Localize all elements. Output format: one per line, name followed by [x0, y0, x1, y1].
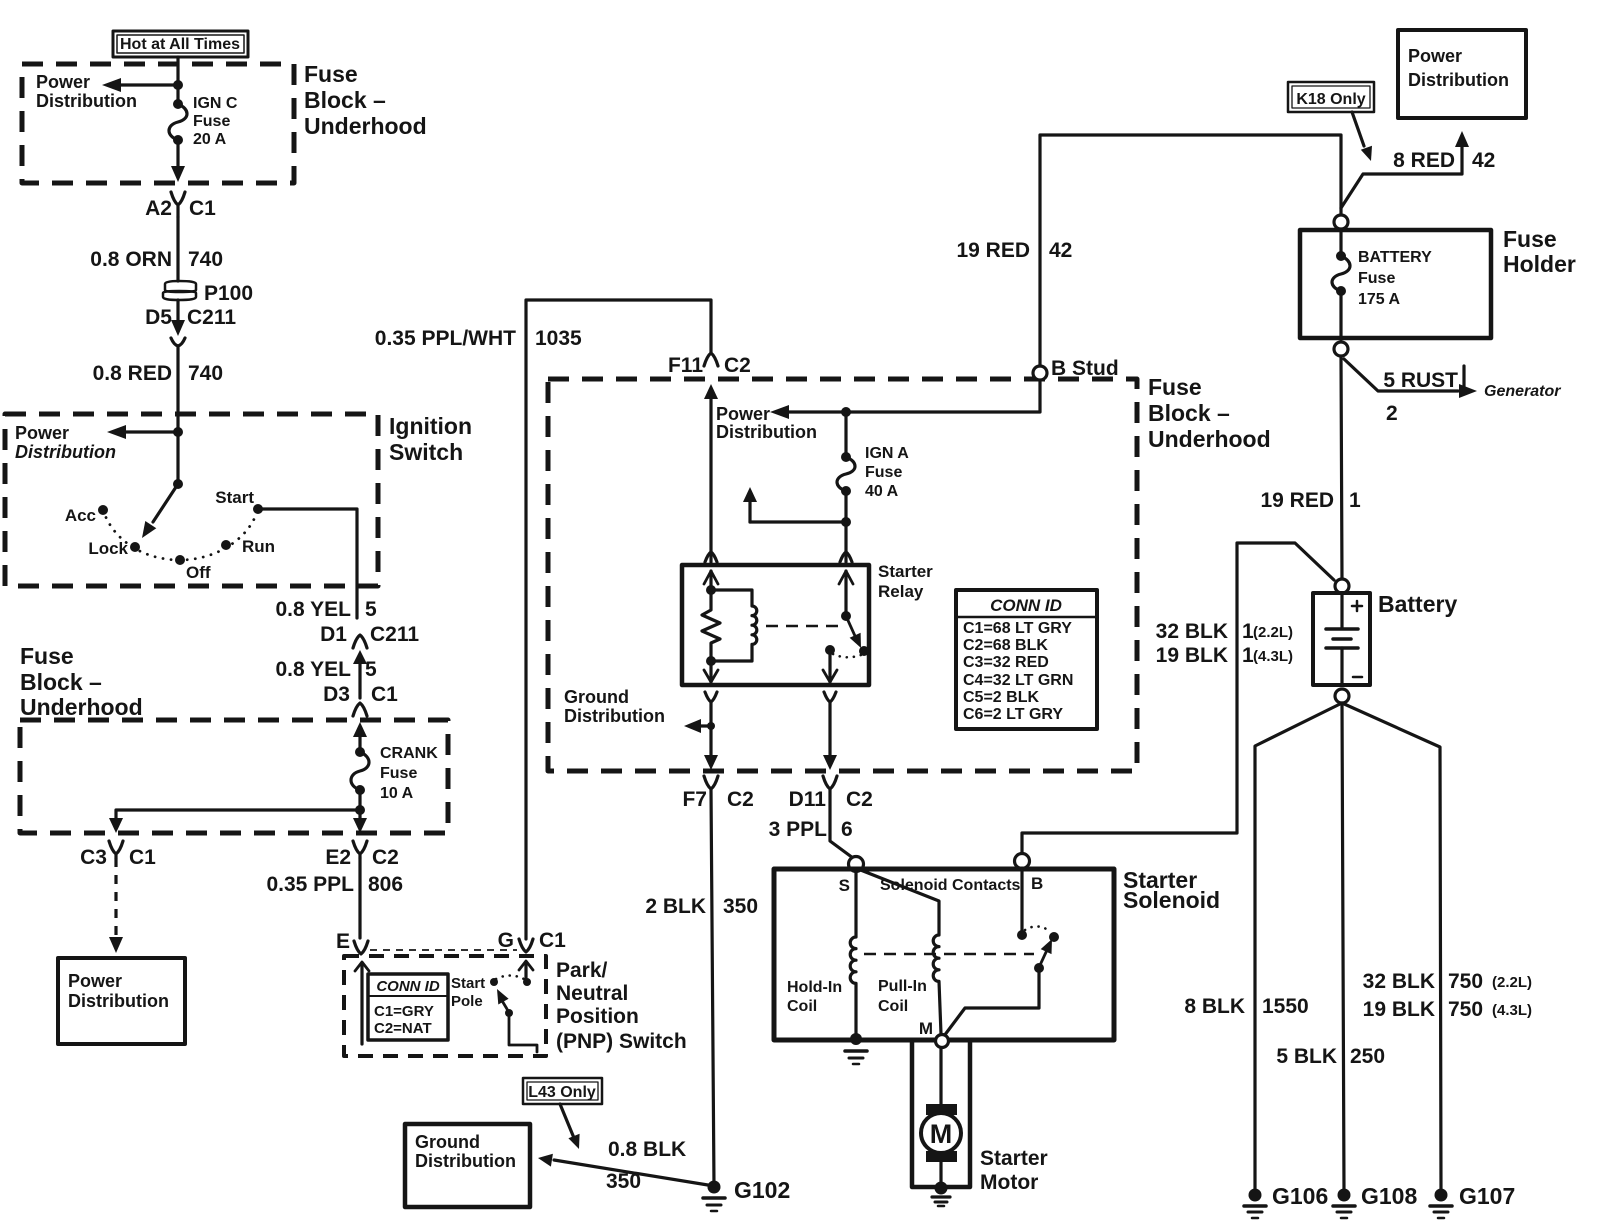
node relay coil top [706, 585, 716, 595]
grommet P100 [163, 281, 196, 300]
svg-text:Battery: Battery [1378, 591, 1457, 617]
label Power Distribution (in fuse block 1) [36, 72, 137, 111]
svg-text:F7: F7 [682, 788, 707, 811]
svg-text:C2=68 BLK: C2=68 BLK [963, 637, 1048, 654]
wire with up arrow entering crank fuse [353, 722, 367, 752]
fuse block underhood dashed box (left middle) [20, 720, 448, 833]
svg-text:E: E [336, 930, 350, 953]
svg-text:Underhood: Underhood [20, 694, 143, 720]
node junction below crank fuse [355, 805, 365, 815]
svg-text:19 BLK: 19 BLK [1156, 644, 1228, 667]
svg-text:G102: G102 [734, 1177, 790, 1203]
svg-text:Underhood: Underhood [304, 113, 427, 139]
svg-text:Solenoid: Solenoid [1123, 887, 1220, 913]
svg-text:E2: E2 [325, 846, 351, 869]
label Power Distribution (ignition switch) [15, 423, 116, 462]
svg-text:Pole: Pole [451, 993, 483, 1010]
relay moving contact dot [825, 645, 835, 655]
svg-text:Park/: Park/ [556, 959, 608, 982]
svg-text:Holder: Holder [1503, 251, 1576, 277]
svg-text:Lock: Lock [88, 539, 128, 558]
svg-text:250: 250 [1350, 1045, 1385, 1068]
label 2 BLK 350 [645, 895, 758, 918]
svg-text:0.8 RED: 0.8 RED [93, 362, 172, 385]
node relay coil bottom [706, 656, 716, 666]
fuse CRANK 10 A [351, 747, 369, 795]
svg-text:350: 350 [606, 1170, 641, 1193]
hold-in coil wire and inductor [850, 871, 856, 1037]
svg-text:(PNP) Switch: (PNP) Switch [556, 1030, 687, 1053]
svg-text:Fuse: Fuse [865, 464, 902, 481]
PNP start pole contact dots [490, 978, 531, 986]
svg-text:Block –: Block – [20, 669, 102, 695]
svg-text:Coil: Coil [787, 998, 817, 1015]
hold-in coil ground [845, 1033, 867, 1064]
svg-text:C2: C2 [846, 788, 873, 811]
relay coil inductor [711, 590, 757, 661]
svg-text:Block –: Block – [1148, 400, 1230, 426]
svg-text:6: 6 [841, 818, 853, 841]
svg-text:175 A: 175 A [1358, 291, 1401, 308]
wire left branch to C3 [109, 810, 360, 833]
ground G108 [1333, 1189, 1355, 1219]
label Pull-In Coil [878, 978, 927, 1015]
svg-text:Relay: Relay [878, 582, 924, 601]
svg-text:G: G [498, 929, 514, 952]
svg-text:C1: C1 [189, 197, 216, 220]
svg-text:B Stud: B Stud [1051, 357, 1119, 380]
svg-text:G108: G108 [1361, 1183, 1417, 1209]
relay resistor [702, 590, 720, 661]
wire D11 to S terminal [830, 789, 853, 858]
svg-text:C3: C3 [80, 846, 107, 869]
label Starter Solenoid [1123, 867, 1220, 913]
label 19 RED 1 [1260, 489, 1361, 512]
ground G102 [703, 1181, 725, 1212]
relay mechanical dashed link [766, 625, 838, 628]
arrow from K18 Only [1352, 112, 1372, 161]
wire 0.8 RED 740 [176, 346, 179, 432]
svg-text:(2.2L): (2.2L) [1253, 624, 1293, 641]
svg-text:Fuse: Fuse [1503, 226, 1557, 252]
connector A2 C1 [171, 192, 185, 217]
wire fuse to lower junction [844, 491, 847, 522]
fuse holder bottom terminal circle [1334, 342, 1348, 356]
svg-text:Run: Run [242, 537, 275, 556]
connector D11 C2 [823, 776, 837, 789]
label 32 BLK 750 (2.2L) [1363, 970, 1532, 993]
svg-text:C2=NAT: C2=NAT [374, 1020, 432, 1037]
solenoid switch arm with arrow [1034, 939, 1052, 973]
svg-text:42: 42 [1472, 149, 1495, 172]
PNP dotted arc [496, 976, 524, 980]
svg-text:C2: C2 [724, 354, 751, 377]
svg-text:Ground: Ground [564, 687, 629, 707]
label 5 BLK 250 [1276, 1045, 1385, 1068]
arrow up at E terminal [355, 962, 369, 1044]
svg-text:S: S [839, 876, 850, 895]
svg-text:M: M [919, 1019, 933, 1038]
svg-text:3 PPL: 3 PPL [769, 818, 828, 841]
wire with up arrow entering fuse block from F11 [704, 384, 718, 562]
ground distribution box (bottom) [405, 1124, 530, 1207]
S terminal circle [849, 857, 864, 872]
svg-text:0.8 ORN: 0.8 ORN [90, 248, 172, 271]
wire 8 RED 42 branch with up arrow [1341, 131, 1469, 208]
wire M terminal to motor [939, 1048, 942, 1104]
relay fixed contact dot [841, 611, 851, 621]
label CRANK Fuse 10 A [380, 745, 438, 802]
svg-text:Fuse: Fuse [380, 765, 417, 782]
svg-text:IGN C: IGN C [193, 95, 238, 112]
svg-text:42: 42 [1049, 239, 1072, 262]
svg-text:Starter: Starter [878, 562, 933, 581]
M terminal circle [936, 1035, 949, 1048]
wire relay to F7 with down arrow [704, 702, 718, 770]
svg-text:Fuse: Fuse [1358, 270, 1395, 287]
svg-text:Fuse: Fuse [1148, 374, 1202, 400]
svg-text:0.35 PPL/WHT: 0.35 PPL/WHT [375, 327, 516, 350]
svg-text:Neutral: Neutral [556, 982, 628, 1005]
wire battery negative to G107 [1342, 703, 1441, 1190]
svg-text:Power: Power [716, 404, 770, 424]
svg-text:19 BLK: 19 BLK [1363, 998, 1435, 1021]
chevron below relay right [824, 692, 836, 702]
arrow to power distribution [102, 78, 178, 92]
label BATTERY Fuse 175 A [1358, 249, 1432, 308]
label Fuse Block - Underhood (middle right) [1148, 374, 1271, 452]
fuse IGN C 20 A [169, 99, 187, 145]
svg-text:750: 750 [1448, 970, 1483, 993]
svg-text:C1=GRY: C1=GRY [374, 1003, 434, 1020]
svg-text:Block –: Block – [304, 87, 386, 113]
node junction above IGN A fuse [841, 407, 851, 417]
svg-text:750: 750 [1448, 998, 1483, 1021]
starter solenoid box [774, 869, 1114, 1040]
label 0.35 PPL/WHT 1035 [375, 327, 582, 350]
svg-text:Fuse: Fuse [193, 113, 230, 130]
svg-text:D1: D1 [320, 623, 347, 646]
relay coil feed up arrow [704, 571, 718, 590]
wire from B terminal to battery positive [1022, 543, 1334, 853]
fuse block underhood dashed box (middle) [548, 379, 1137, 771]
label 19 RED 42 [956, 239, 1072, 262]
svg-text:CONN ID: CONN ID [990, 596, 1062, 615]
svg-text:5: 5 [365, 598, 377, 621]
label Fuse Block - Underhood (top left) [304, 61, 427, 139]
svg-text:(4.3L): (4.3L) [1253, 648, 1293, 665]
svg-text:Motor: Motor [980, 1171, 1038, 1194]
svg-text:B: B [1031, 874, 1043, 893]
wire battery negative to G106 [1255, 703, 1342, 1190]
connector D5 C211 with arrow [171, 300, 185, 346]
svg-text:Fuse: Fuse [20, 643, 74, 669]
svg-text:1035: 1035 [535, 327, 582, 350]
svg-text:C6=2 LT GRY: C6=2 LT GRY [963, 706, 1063, 723]
svg-text:C211: C211 [187, 306, 236, 329]
svg-text:Start: Start [451, 975, 485, 992]
label Ground Distribution (middle) [564, 687, 665, 726]
svg-text:C2: C2 [727, 788, 754, 811]
label Power Distribution (middle fuse block) [716, 404, 817, 442]
svg-text:Switch: Switch [389, 439, 463, 465]
svg-text:2 BLK: 2 BLK [645, 895, 706, 918]
svg-text:5: 5 [365, 658, 377, 681]
power distribution box (bottom left) [58, 958, 185, 1044]
svg-text:C4=32 LT GRN: C4=32 LT GRN [963, 672, 1073, 689]
dashed wire to power distribution [109, 858, 123, 953]
node junction ignition feed [173, 427, 183, 437]
fuse block underhood dashed box (top left) [22, 64, 294, 183]
svg-text:CONN ID: CONN ID [376, 978, 440, 995]
svg-text:A2: A2 [145, 197, 172, 220]
svg-text:C5=2 BLK: C5=2 BLK [963, 689, 1039, 706]
label 0.8 ORN 740 [90, 248, 223, 271]
battery positive terminal circle [1335, 579, 1349, 593]
fuse holder box [1300, 230, 1491, 338]
pull-in coil wire and inductor [858, 869, 941, 1034]
svg-text:G106: G106 [1272, 1183, 1328, 1209]
svg-text:740: 740 [188, 248, 223, 271]
svg-text:(2.2L): (2.2L) [1492, 974, 1532, 991]
svg-text:Ignition: Ignition [389, 413, 472, 439]
label Start Pole [451, 975, 485, 1010]
park neutral position switch dashed box [344, 956, 546, 1056]
solenoid contact dotted arc [1025, 926, 1051, 932]
svg-text:0.8 YEL: 0.8 YEL [276, 598, 352, 621]
wire battery negative to G108 [1342, 703, 1344, 1190]
connector F11 C2 [704, 353, 718, 366]
svg-text:Starter: Starter [980, 1147, 1048, 1170]
svg-text:C1: C1 [129, 846, 156, 869]
svg-text:G107: G107 [1459, 1183, 1515, 1209]
relay contact dotted arc [833, 654, 861, 657]
label 0.35 PPL 806 [266, 873, 403, 896]
label Power Distribution (top right box) [1408, 46, 1509, 90]
svg-text:Generator: Generator [1484, 383, 1561, 400]
motor brush bottom [926, 1151, 957, 1162]
label 0.8 YEL 5 (lower) [276, 658, 378, 681]
label 0.8 YEL 5 (upper) [276, 598, 378, 621]
wire from crank fuse to junction [358, 790, 361, 810]
svg-text:0.35 PPL: 0.35 PPL [266, 873, 354, 896]
relay coil down arrow [704, 661, 718, 682]
battery minus sign [1353, 676, 1362, 679]
svg-text:8 BLK: 8 BLK [1184, 995, 1245, 1018]
wire motor to ground [939, 1162, 942, 1184]
wire B stud up and across to fuse holder [1040, 135, 1341, 366]
battery box [1313, 593, 1370, 685]
svg-text:Distribution: Distribution [15, 442, 116, 462]
svg-text:D11: D11 [789, 788, 827, 811]
ignition rotary dotted arc [103, 509, 258, 560]
svg-text:Fuse: Fuse [304, 61, 358, 87]
svg-text:740: 740 [188, 362, 223, 385]
motor brush top [926, 1104, 957, 1115]
wire down arrow to E2 [353, 810, 367, 833]
ground G106 [1244, 1189, 1266, 1219]
wire B terminal to contact [1020, 869, 1023, 935]
svg-text:D5: D5 [145, 306, 172, 329]
starter motor ground [932, 1182, 950, 1207]
chevron below relay left [705, 692, 717, 702]
wire from Hot at All Times down [176, 57, 179, 104]
connector F7 C2 [704, 776, 718, 789]
svg-text:2: 2 [1386, 402, 1398, 425]
svg-text:20 A: 20 A [193, 131, 227, 148]
wire relay to D11 with down arrow [823, 702, 837, 770]
wire 0.35 PPL 806 [358, 858, 361, 938]
wire 19 RED 1 [1341, 356, 1342, 579]
connector D3 C1 [353, 703, 367, 716]
wire 0.8 BLK 350 with arrow to ground distribution [538, 1154, 714, 1186]
power distribution box (top right) [1398, 30, 1526, 118]
label 3 PPL 6 [769, 818, 853, 841]
svg-text:0.8 YEL: 0.8 YEL [276, 658, 352, 681]
label IGN C Fuse 20 A [193, 95, 238, 148]
solenoid contact dot B [1017, 930, 1027, 940]
chevron above relay left [705, 552, 717, 562]
svg-text:Distribution: Distribution [564, 706, 665, 726]
svg-text:32 BLK: 32 BLK [1156, 620, 1228, 643]
svg-text:IGN A: IGN A [865, 445, 909, 462]
dashed connector line between E and G [370, 949, 517, 951]
label 8 BLK 1550 [1184, 995, 1308, 1018]
battery plus sign [1352, 601, 1362, 611]
svg-text:Hot at All Times: Hot at All Times [120, 36, 240, 53]
label 32 BLK 1 (2.2L) [1156, 620, 1293, 643]
fuse IGN A 40 A [837, 452, 855, 496]
svg-text:350: 350 [723, 895, 758, 918]
label Starter Motor [980, 1147, 1048, 1194]
label Hold-In Coil [787, 979, 842, 1015]
fuse BATTERY 175 A [1332, 229, 1350, 339]
svg-text:1550: 1550 [1262, 995, 1309, 1018]
PNP switch arm with arrow [497, 989, 537, 1052]
label 0.8 RED 740 [93, 362, 223, 385]
node ground distribution tap with arrow [684, 719, 715, 733]
connector G C1 [519, 939, 533, 952]
svg-text:D3: D3 [323, 683, 350, 706]
relay switch arm [846, 616, 869, 656]
wire junction to fuse [844, 412, 847, 457]
svg-text:Pull-In: Pull-In [878, 978, 927, 995]
svg-text:Distribution: Distribution [68, 991, 169, 1011]
starter motor housing [912, 1042, 970, 1187]
motor circle M [921, 1113, 961, 1153]
node junction below IGN A fuse [841, 517, 851, 527]
svg-text:Underhood: Underhood [1148, 426, 1271, 452]
svg-text:Distribution: Distribution [36, 91, 137, 111]
svg-text:40 A: 40 A [865, 483, 899, 500]
svg-text:19 RED: 19 RED [956, 239, 1030, 262]
relay output wire down arrow [823, 650, 837, 682]
node junction at IGN C feed [173, 80, 183, 90]
label 8 RED 42 [1393, 149, 1495, 172]
label Park/Neutral Position (PNP) Switch [556, 959, 687, 1053]
label Fuse Holder [1503, 226, 1576, 277]
label Fuse Block - Underhood (left middle) [20, 643, 143, 720]
svg-text:P100: P100 [204, 282, 253, 305]
svg-text:C3=32 RED: C3=32 RED [963, 654, 1049, 671]
wire with down arrow exiting fuse block 1 [171, 140, 185, 182]
svg-text:32 BLK: 32 BLK [1363, 970, 1435, 993]
arrow up at G terminal [519, 961, 533, 978]
svg-text:Power: Power [15, 423, 69, 443]
wire to wiper [176, 432, 179, 484]
battery negative terminal circle [1335, 689, 1349, 703]
svg-text:1: 1 [1349, 489, 1361, 512]
svg-text:Power: Power [36, 72, 90, 92]
svg-text:C1: C1 [539, 929, 566, 952]
connector E2 C2 [353, 841, 367, 858]
svg-text:(4.3L): (4.3L) [1492, 1002, 1532, 1019]
wire 0.35 PPL/WHT 1035 [526, 300, 711, 939]
wire from Start contact [258, 509, 357, 618]
svg-text:0.8 BLK: 0.8 BLK [608, 1138, 686, 1161]
arrow to power distribution (middle) [770, 405, 789, 419]
wire from B Stud to IGN A junction [789, 380, 1040, 412]
wire 5 RUST 2 branch with arrow to generator [1344, 359, 1477, 398]
battery cell symbol [1326, 593, 1358, 685]
arrow from L43 Only [560, 1104, 580, 1149]
svg-text:19 RED: 19 RED [1260, 489, 1334, 512]
connector E [354, 941, 368, 954]
label 19 BLK 750 (4.3L) [1363, 998, 1532, 1021]
svg-text:L43 Only: L43 Only [528, 1084, 596, 1101]
conn id table (PNP) [368, 974, 448, 1040]
B Stud terminal circle [1033, 366, 1047, 380]
svg-text:8 RED: 8 RED [1393, 149, 1455, 172]
svg-text:Position: Position [556, 1005, 639, 1028]
svg-text:5 BLK: 5 BLK [1276, 1045, 1337, 1068]
svg-text:K18 Only: K18 Only [1296, 91, 1365, 108]
svg-text:Acc: Acc [65, 506, 96, 525]
svg-text:CRANK: CRANK [380, 745, 438, 762]
svg-text:C1: C1 [371, 683, 398, 706]
relay contact feed with up arrow [839, 571, 853, 616]
svg-text:10 A: 10 A [380, 785, 414, 802]
svg-text:Coil: Coil [878, 998, 908, 1015]
svg-text:Distribution: Distribution [716, 422, 817, 442]
label 19 BLK 1 (4.3L) [1156, 644, 1293, 667]
connector D1 C211 [353, 635, 367, 698]
label 0.8 BLK 350 [606, 1138, 686, 1193]
svg-text:C211: C211 [370, 623, 419, 646]
arrow to power distribution (ignition switch) [107, 425, 178, 439]
ignition switch dashed box [5, 414, 378, 586]
label 5 RUST 2 [1383, 369, 1458, 425]
svg-text:Ground: Ground [415, 1132, 480, 1152]
wire switch arm to M terminal [944, 968, 1039, 1036]
svg-text:BATTERY: BATTERY [1358, 249, 1432, 266]
svg-text:Distribution: Distribution [1408, 70, 1509, 90]
branch wire with up arrow [743, 487, 846, 522]
label Power Distribution (bottom left box) [68, 971, 169, 1011]
svg-text:Off: Off [186, 563, 211, 582]
svg-text:Distribution: Distribution [415, 1151, 516, 1171]
solenoid dashed link [864, 953, 1034, 956]
svg-text:5 RUST: 5 RUST [1383, 369, 1458, 392]
conn id table (fuse block) [956, 590, 1097, 729]
svg-text:F11: F11 [668, 354, 703, 377]
svg-text:Power: Power [68, 971, 122, 991]
B terminal circle [1015, 854, 1030, 869]
starter relay box [682, 565, 869, 685]
svg-text:Power: Power [1408, 46, 1462, 66]
ground G107 [1430, 1189, 1452, 1219]
ignition wiper arrow [142, 487, 176, 538]
